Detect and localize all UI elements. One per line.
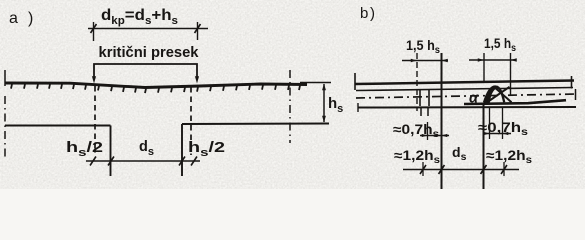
critical-section bracket with arrows (94, 64, 197, 80)
dashed critical section line left (94, 86, 96, 153)
slab top surface line (a) (5, 83, 307, 88)
column right face (a) (181, 124, 183, 176)
h_s dimension vertical (a) (323, 84, 325, 122)
bottom dimension line (a) (86, 160, 200, 162)
extension ticks bottom (b) (422, 162, 424, 176)
svg-text:kritični presek: kritični presek (99, 45, 200, 61)
column right face (b) (483, 104, 485, 189)
right dash-dot boundary (289, 70, 291, 143)
rebar marks on centerline (419, 89, 421, 106)
right end tick (b top) (571, 76, 573, 89)
svg-text:a: a (9, 10, 18, 27)
h_s top extension (a) (300, 82, 331, 84)
soffit left end tick (357, 103, 359, 112)
slab soffit (b) (358, 106, 576, 109)
centerline right end tick (575, 89, 577, 100)
column left face (a) (110, 126, 112, 177)
stirrup legs below soffit (left) (420, 107, 422, 116)
crack arch dark left leg (486, 87, 497, 103)
dimension 0,7h_s right (483, 133, 511, 135)
crack X diagonal up (488, 87, 510, 102)
centerline dash-dot (b) (356, 94, 577, 98)
crack X diagonal down (494, 86, 512, 102)
paper grain (0, 0, 585, 189)
heavy line under crack / bent bar (464, 100, 566, 104)
extension lines right-dim (483, 53, 485, 83)
dimension 1,5h_s right (469, 59, 516, 61)
svg-text:): ) (28, 10, 33, 27)
dimension line d_kp (88, 28, 208, 30)
extension line left-dim a (416, 53, 418, 111)
dimension 0,7h_s left (420, 135, 449, 137)
crack arch inner stroke (488, 89, 495, 103)
dimension 1,5h_s left (402, 60, 448, 62)
dashed critical section line right (190, 87, 192, 155)
bottom dimension line (b) (403, 169, 519, 171)
left end tick (b top) (354, 73, 356, 90)
svg-text:): ) (370, 5, 375, 22)
svg-text:b: b (360, 5, 368, 22)
slab second line (b) (356, 88, 573, 91)
crack arch (484, 86, 504, 102)
left dash-dot boundary (4, 70, 6, 86)
slab top line (b) (355, 81, 574, 85)
svg-text:α: α (469, 91, 479, 107)
slab soffit right + h_s bottom extension (182, 123, 329, 126)
hatch ticks under slab top (11, 84, 12, 89)
slab soffit left (5, 125, 111, 127)
column left face (b) (441, 53, 443, 189)
